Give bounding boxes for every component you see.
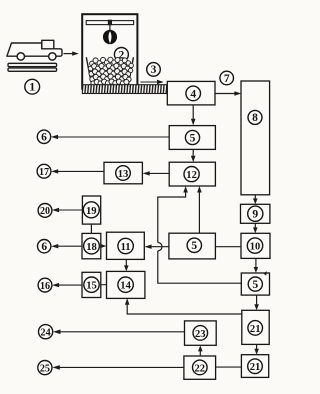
svg-text:11: 11 bbox=[121, 242, 131, 253]
wire box15 to node16 bbox=[52, 283, 82, 287]
wire box5c to box21a bbox=[254, 295, 259, 310]
node 6 upper bbox=[37, 130, 50, 144]
node 25 bbox=[38, 361, 52, 375]
svg-text:21: 21 bbox=[250, 362, 261, 373]
rail trolley bbox=[108, 20, 112, 26]
svg-text:17: 17 bbox=[39, 167, 49, 178]
wire box11 to box14 bbox=[124, 259, 129, 271]
wire box14 to box15 bbox=[101, 284, 107, 286]
wire box18 to node6 lower bbox=[51, 244, 82, 248]
node 1 bbox=[25, 79, 40, 94]
svg-text:6: 6 bbox=[41, 132, 47, 144]
junction mark box5c corner bbox=[263, 271, 267, 275]
wire box22 to box21b bbox=[216, 366, 242, 368]
svg-text:1: 1 bbox=[29, 80, 35, 94]
box 21a bbox=[242, 310, 269, 344]
svg-text:14: 14 bbox=[120, 281, 131, 292]
node 2 bbox=[114, 48, 128, 62]
conveyor belt bbox=[82, 85, 169, 94]
box 13 bbox=[104, 162, 142, 184]
svg-text:4: 4 bbox=[190, 88, 196, 100]
svg-text:22: 22 bbox=[195, 363, 206, 374]
wire box19 to box18 bbox=[90, 224, 92, 233]
wire box22 to node25 bbox=[52, 365, 184, 370]
wire box21a to box21b bbox=[254, 344, 259, 354]
node 3 bbox=[147, 63, 161, 77]
hopper rail bbox=[86, 21, 133, 25]
wire box21a to box14 bbox=[125, 298, 242, 314]
svg-text:9: 9 bbox=[252, 209, 258, 221]
svg-text:15: 15 bbox=[86, 281, 97, 292]
box 9 bbox=[241, 204, 270, 223]
box 5b bbox=[169, 233, 216, 259]
box 5a bbox=[169, 126, 215, 150]
box 10 bbox=[241, 233, 270, 258]
wire box5b to box12 bbox=[197, 186, 202, 233]
svg-text:18: 18 bbox=[86, 242, 97, 253]
rubble pile bbox=[88, 57, 133, 86]
hopper right wall bbox=[128, 57, 133, 85]
grab cable bbox=[109, 25, 111, 30]
box 15 bbox=[82, 272, 101, 297]
wire arrow under node 3 bbox=[141, 80, 164, 84]
node 24 bbox=[39, 325, 53, 339]
grab claw bbox=[103, 30, 117, 45]
svg-text:20: 20 bbox=[40, 206, 50, 217]
box 8 bbox=[241, 81, 270, 195]
wire box19 to node20 bbox=[52, 208, 82, 212]
wire box5b to box10 bbox=[215, 246, 241, 248]
wire box5c to box12 (long branch with hop) bbox=[158, 186, 241, 283]
box 12 bbox=[169, 162, 215, 186]
wire box4 to box5a bbox=[191, 105, 196, 126]
box 4 bbox=[167, 81, 215, 105]
svg-text:16: 16 bbox=[40, 281, 50, 292]
svg-text:10: 10 bbox=[250, 242, 261, 253]
svg-text:5: 5 bbox=[252, 279, 258, 291]
svg-text:3: 3 bbox=[151, 64, 157, 76]
svg-text:5: 5 bbox=[191, 240, 197, 252]
box 5c bbox=[241, 273, 269, 295]
wire box10 to box5c bbox=[254, 258, 259, 273]
wire box23 to node24 bbox=[53, 330, 185, 335]
svg-text:25: 25 bbox=[40, 363, 50, 374]
box 21b bbox=[241, 355, 268, 378]
svg-text:6: 6 bbox=[41, 241, 47, 253]
box 23 bbox=[185, 321, 217, 345]
node 7 bbox=[220, 71, 234, 85]
ramp bar upper bbox=[8, 63, 57, 66]
node 6 lower bbox=[38, 240, 51, 254]
node 17 bbox=[37, 164, 51, 178]
svg-text:8: 8 bbox=[252, 112, 258, 124]
box 18 bbox=[82, 233, 101, 258]
svg-text:5: 5 bbox=[190, 132, 196, 144]
svg-text:24: 24 bbox=[41, 328, 51, 339]
svg-text:7: 7 bbox=[224, 73, 230, 85]
svg-text:21: 21 bbox=[250, 324, 261, 335]
wire box9 to box10 bbox=[253, 223, 258, 233]
box 19 bbox=[82, 196, 100, 224]
wire box8 to box9 bbox=[253, 195, 258, 204]
svg-text:12: 12 bbox=[186, 170, 197, 181]
hopper left wall bbox=[86, 57, 91, 85]
box 14 bbox=[107, 271, 145, 298]
box 22 bbox=[184, 356, 216, 379]
wire box18 to box11 bbox=[100, 244, 106, 248]
svg-text:19: 19 bbox=[86, 206, 97, 217]
wire box4 to box8 bbox=[215, 91, 241, 95]
wire box5a to box12 bbox=[191, 149, 196, 162]
node 16 bbox=[38, 278, 52, 292]
wire box5a to node6 upper bbox=[51, 135, 169, 139]
node 20 bbox=[38, 204, 52, 218]
truck (haul vehicle) bbox=[7, 40, 62, 60]
wire box12 to box13 bbox=[143, 171, 170, 175]
hopper bin (unit 2) bbox=[82, 14, 137, 89]
wire box13 to node17 bbox=[51, 169, 104, 173]
ramp bar lower bbox=[8, 68, 57, 71]
svg-text:13: 13 bbox=[118, 169, 129, 180]
wire truck to hopper bbox=[64, 51, 79, 55]
wire box5b to box11 bbox=[145, 245, 169, 249]
box 11 bbox=[107, 232, 145, 259]
svg-text:23: 23 bbox=[195, 329, 206, 340]
wire box22 to box23 bbox=[198, 345, 203, 356]
